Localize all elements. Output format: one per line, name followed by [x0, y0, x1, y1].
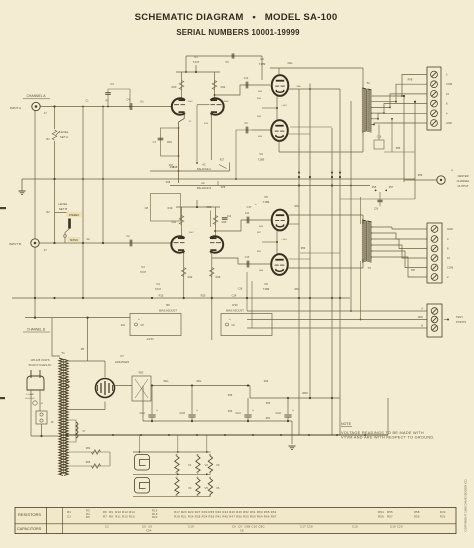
- svg-text:R43: R43: [264, 380, 269, 383]
- svg-text:R25: R25: [216, 275, 221, 279]
- svg-text:-21.5V: -21.5V: [146, 337, 154, 341]
- svg-text:+16.5: +16.5: [281, 105, 287, 107]
- svg-text:C18: C18: [238, 288, 243, 291]
- svg-text:V1: V1: [194, 55, 198, 59]
- svg-text:CHANNEL A: CHANNEL A: [26, 94, 46, 98]
- svg-text:C11: C11: [245, 212, 250, 215]
- svg-text:R22: R22: [188, 275, 193, 279]
- svg-text:R63: R63: [139, 371, 144, 375]
- svg-text:C7: C7: [153, 140, 157, 144]
- svg-text:16: 16: [447, 256, 450, 260]
- svg-text:CHANNEL: CHANNEL: [457, 179, 470, 183]
- svg-text:C10: C10: [244, 77, 249, 80]
- svg-text:C17 C18: C17 C18: [300, 525, 313, 529]
- svg-text:+: +: [292, 408, 294, 412]
- svg-text:V2: V2: [205, 463, 209, 467]
- svg-text:R56 R57: R56 R57: [378, 514, 393, 518]
- svg-text:LEVEL: LEVEL: [59, 202, 68, 206]
- svg-text:+: +: [252, 408, 254, 412]
- svg-text:R21: R21: [172, 220, 177, 224]
- svg-text:R22: R22: [152, 515, 158, 519]
- svg-text:R51: R51: [266, 417, 271, 420]
- svg-text:R15: R15: [159, 294, 164, 298]
- svg-text:R16: R16: [152, 508, 158, 512]
- svg-text:R27: R27: [220, 159, 225, 162]
- svg-text:BALANCE A: BALANCE A: [197, 168, 211, 171]
- svg-text:NOTE: NOTE: [341, 422, 352, 426]
- svg-text:R1: R1: [67, 510, 71, 514]
- svg-text:SLO-BLO: SLO-BLO: [25, 398, 35, 400]
- svg-text:V5: V5: [205, 486, 209, 490]
- svg-text:R24: R24: [221, 85, 226, 89]
- svg-text:R16: R16: [167, 140, 172, 144]
- svg-text:AC: AC: [202, 164, 206, 167]
- svg-text:R50: R50: [266, 402, 271, 405]
- svg-text:R29: R29: [207, 205, 212, 209]
- svg-text:V6: V6: [216, 486, 220, 490]
- svg-text:50-60 CYCLES AC: 50-60 CYCLES AC: [29, 363, 52, 367]
- svg-text:V5: V5: [264, 195, 268, 199]
- svg-text:COPYRIGHT 1960 DAVID BOGEN CO.: COPYRIGHT 1960 DAVID BOGEN CO.: [464, 478, 468, 531]
- svg-text:COM: COM: [447, 266, 454, 270]
- svg-text:C9-B: C9-B: [180, 412, 186, 415]
- svg-text:V4: V4: [141, 265, 145, 269]
- svg-text:R19: R19: [168, 206, 173, 210]
- svg-text:R18 R21 R24 R28 R34 R36 R41 R4: R18 R21 R24 R28 R34 R36 R41 R45 R47 R50 …: [174, 514, 277, 518]
- svg-text:R30: R30: [232, 303, 238, 307]
- svg-text:R26: R26: [222, 220, 227, 224]
- svg-text:PRI: PRI: [411, 269, 415, 272]
- svg-text:C19: C19: [188, 525, 194, 529]
- svg-text:7189: 7189: [263, 200, 270, 204]
- svg-text:340+: 340+: [287, 62, 293, 65]
- svg-text:G1: G1: [140, 100, 144, 104]
- svg-text:C20: C20: [374, 209, 379, 211]
- svg-text:C9-D: C9-D: [275, 412, 281, 415]
- svg-text:390+: 390+: [163, 380, 169, 383]
- svg-text:R29: R29: [201, 294, 206, 298]
- svg-text:R4: R4: [86, 512, 90, 516]
- svg-text:V3: V3: [216, 463, 220, 467]
- svg-text:C12: C12: [227, 216, 232, 218]
- svg-text:STEREO: STEREO: [69, 214, 79, 217]
- svg-text:R20: R20: [172, 85, 177, 89]
- svg-text:AC: AC: [201, 182, 205, 185]
- svg-text:R38: R38: [166, 181, 171, 184]
- svg-text:150V: 150V: [188, 232, 194, 234]
- svg-text:C4: C4: [126, 98, 130, 102]
- svg-text:+16.4: +16.4: [281, 239, 287, 241]
- svg-text:C5: C5: [225, 60, 229, 64]
- svg-text:CHANNEL B: CHANNEL B: [27, 328, 45, 332]
- svg-text:+: +: [196, 408, 198, 412]
- svg-text:7247: 7247: [155, 287, 162, 291]
- svg-text:LEVEL: LEVEL: [60, 130, 69, 134]
- svg-text:R3: R3: [86, 508, 90, 512]
- svg-text:380+: 380+: [294, 205, 300, 208]
- svg-text:C8: C8: [240, 530, 244, 533]
- svg-text:R17 R20 R23 R27 R33 R35 R40 R4: R17 R20 R23 R27 R33 R35 R40 R44 R46 R49 …: [174, 510, 277, 514]
- svg-text:284+: 284+: [297, 86, 303, 88]
- svg-text:R6 R9 R10 R12 R14: R6 R9 R10 R12 R14: [103, 510, 135, 514]
- svg-text:R56: R56: [396, 147, 401, 150]
- svg-text:150V: 150V: [187, 101, 193, 103]
- svg-text:OUTPUT: OUTPUT: [457, 184, 468, 188]
- svg-text:280V: 280V: [302, 392, 308, 395]
- svg-text:7247: 7247: [140, 270, 147, 274]
- svg-text:C9-C: C9-C: [235, 412, 241, 415]
- svg-text:R1: R1: [46, 137, 50, 141]
- svg-text:V1: V1: [188, 463, 192, 467]
- svg-text:R59: R59: [418, 174, 423, 177]
- svg-text:T1: T1: [61, 351, 65, 355]
- svg-text:R32: R32: [228, 410, 233, 413]
- svg-text:R59: R59: [414, 514, 420, 518]
- svg-text:C13: C13: [245, 256, 250, 259]
- svg-text:POINTS: POINTS: [456, 320, 466, 324]
- svg-text:R57: R57: [389, 186, 394, 189]
- svg-text:RESISTORS: RESISTORS: [18, 512, 41, 517]
- svg-text:+: +: [156, 408, 158, 412]
- svg-text:C16: C16: [377, 136, 382, 139]
- svg-text:C15: C15: [352, 525, 358, 529]
- svg-text:VTVM AND ARE WITH RESPECT TO G: VTVM AND ARE WITH RESPECT TO GROUND.: [341, 435, 435, 439]
- svg-text:105-125 VOLTS: 105-125 VOLTS: [30, 358, 49, 362]
- svg-text:C3: C3: [110, 82, 114, 86]
- svg-text:C2: C2: [105, 525, 109, 529]
- svg-text:V3: V3: [259, 152, 263, 156]
- svg-text:R64: R64: [86, 447, 91, 450]
- svg-text:C1: C1: [67, 514, 71, 518]
- svg-text:R53: R53: [301, 247, 306, 250]
- svg-text:SCHEMATIC DIAGRAM • MODEL: SCHEMATIC DIAGRAM • MODEL SA-100: [135, 12, 338, 23]
- svg-text:R6: R6: [166, 303, 170, 307]
- svg-text:SERIAL NUMBERS 10001-19999: SERIAL NUMBERS 10001-19999: [176, 28, 300, 37]
- svg-text:MONO: MONO: [70, 239, 78, 242]
- svg-text:R30: R30: [440, 510, 446, 514]
- svg-text:T2: T2: [366, 81, 370, 85]
- svg-text:GND: GND: [418, 316, 424, 319]
- svg-text:BIAS ADJUST: BIAS ADJUST: [226, 309, 244, 313]
- svg-text:R55: R55: [372, 186, 377, 189]
- svg-text:V7: V7: [120, 354, 124, 358]
- svg-text:7189: 7189: [263, 287, 270, 291]
- svg-text:C14: C14: [232, 294, 237, 298]
- svg-text:C6 C9 C9B C10 C9C: C6 C9 C9B C10 C9C: [232, 525, 265, 529]
- svg-text:C8: C8: [145, 206, 149, 210]
- svg-text:RFB: RFB: [408, 79, 413, 82]
- svg-text:R18: R18: [173, 165, 178, 169]
- svg-text:R31: R31: [440, 514, 446, 518]
- svg-text:GZ34/5AR4: GZ34/5AR4: [115, 360, 130, 364]
- svg-text:CAPACITORS: CAPACITORS: [17, 527, 42, 531]
- svg-text:360+: 360+: [196, 380, 202, 383]
- svg-text:C17: C17: [247, 205, 252, 209]
- svg-text:C9-A: C9-A: [140, 412, 146, 415]
- svg-text:INPUT A: INPUT A: [10, 106, 21, 110]
- svg-text:SET B: SET B: [59, 207, 67, 211]
- svg-text:R58: R58: [414, 510, 420, 514]
- svg-text:R7 R8 R11 R13 R15: R7 R8 R11 R13 R15: [103, 514, 135, 518]
- svg-text:R11: R11: [121, 324, 126, 327]
- svg-text:INPUT B: INPUT B: [9, 242, 21, 246]
- svg-text:V6: V6: [264, 282, 268, 286]
- svg-text:R2: R2: [46, 210, 50, 214]
- svg-text:SET A: SET A: [60, 135, 68, 139]
- svg-text:GND: GND: [447, 227, 453, 231]
- svg-text:BALANCE B: BALANCE B: [197, 187, 211, 190]
- svg-text:380+: 380+: [294, 288, 300, 291]
- svg-text:BIAS ADJUST: BIAS ADJUST: [159, 309, 177, 313]
- svg-text:C9A: C9A: [146, 530, 152, 533]
- svg-text:7247: 7247: [193, 60, 200, 64]
- svg-text:7189: 7189: [258, 158, 265, 162]
- svg-text:T3: T3: [367, 266, 371, 270]
- svg-text:V2: V2: [260, 57, 264, 61]
- svg-text:R19: R19: [152, 512, 158, 516]
- svg-text:C16 C20: C16 C20: [390, 525, 403, 529]
- svg-text:7189: 7189: [259, 62, 266, 66]
- svg-text:V4: V4: [188, 486, 192, 490]
- svg-text:1.2 AMP: 1.2 AMP: [26, 393, 35, 396]
- svg-text:R54 R55: R54 R55: [378, 510, 393, 514]
- svg-text:R28: R28: [221, 186, 226, 189]
- svg-text:GND: GND: [446, 121, 452, 125]
- svg-text:CENTER: CENTER: [457, 174, 468, 178]
- svg-text:C5 C6: C5 C6: [142, 525, 152, 529]
- svg-text:VOLTAGE READINGS TO BE MADE WI: VOLTAGE READINGS TO BE MADE WITH: [341, 431, 424, 435]
- svg-text:R5: R5: [86, 515, 90, 519]
- svg-text:R65: R65: [86, 461, 91, 464]
- svg-text:150V: 150V: [223, 101, 229, 103]
- svg-text:V7: V7: [82, 429, 86, 433]
- svg-text:R39: R39: [228, 394, 233, 397]
- svg-text:TEST: TEST: [456, 315, 463, 319]
- svg-text:COM: COM: [446, 82, 452, 86]
- svg-text:V4: V4: [156, 282, 160, 286]
